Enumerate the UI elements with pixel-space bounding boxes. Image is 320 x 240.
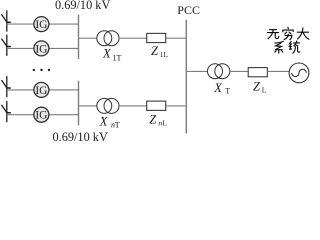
wire PCC bus to transformer XT	[186, 70, 207, 72]
wire Z1L to PCC bus	[166, 37, 187, 39]
svg-text:IG: IG	[35, 85, 47, 97]
wire bus 1 to transformer X1T	[79, 37, 98, 39]
svg-text:IG: IG	[35, 110, 47, 122]
wire bus 2 to transformer XnT	[79, 105, 98, 107]
wire IG1 to bus 1	[49, 23, 79, 25]
induction generator IG2	[34, 41, 49, 56]
transformer X1T	[97, 31, 119, 46]
wire WT2 to IG2	[7, 47, 34, 49]
svg-text:Z: Z	[253, 80, 261, 94]
PCC busbar	[185, 20, 187, 134]
svg-text:L: L	[162, 119, 167, 128]
svg-text:IG: IG	[35, 19, 47, 31]
wire XT to ZL	[230, 70, 248, 72]
label Z1L	[151, 44, 169, 59]
char 无	[268, 30, 279, 39]
wire X1T to Z1L	[119, 37, 147, 39]
svg-text:X: X	[99, 114, 109, 128]
wire ZL to infinite source	[267, 70, 289, 72]
svg-text:X: X	[102, 46, 112, 60]
wire XnT to ZnL	[119, 105, 147, 107]
char 穷	[283, 27, 293, 39]
wire WT3 to IG3	[7, 89, 34, 91]
bus 2 (0.69/10 kV busbar, bottom)	[78, 81, 80, 126]
impedance ZnL	[147, 101, 166, 110]
wind turbine WT3	[2, 77, 11, 97]
svg-text:1L: 1L	[160, 50, 169, 59]
wire IG3 to bus 2	[49, 89, 79, 91]
char 大	[297, 28, 309, 39]
label X1T	[102, 46, 122, 62]
wind turbine WT1	[2, 11, 11, 31]
svg-text:IG: IG	[35, 43, 47, 55]
svg-text:T: T	[225, 87, 230, 96]
svg-text:Z: Z	[151, 44, 159, 58]
wire IG2 to bus 1	[49, 47, 79, 49]
wire ZnL to PCC bus	[166, 105, 187, 107]
svg-text:0.69/10 kV: 0.69/10 kV	[55, 0, 110, 12]
ellipsis dots between wind farm groups	[33, 69, 50, 71]
label XnT	[99, 114, 120, 129]
svg-text:0.69/10 kV: 0.69/10 kV	[53, 130, 108, 144]
induction generator IG3	[34, 82, 49, 97]
impedance Z1L	[147, 33, 166, 42]
wire IG4 to bus 2	[49, 114, 79, 116]
wire WT4 to IG4	[7, 114, 34, 116]
infinite bus AC source	[289, 63, 309, 83]
wind turbine WT2	[2, 35, 11, 55]
bus 1 (0.69/10 kV busbar, top)	[78, 15, 80, 60]
transformer XT	[208, 64, 230, 79]
svg-text:T: T	[115, 120, 120, 129]
svg-text:X: X	[213, 81, 223, 95]
induction generator IG4	[34, 107, 49, 122]
svg-text:1T: 1T	[113, 53, 122, 62]
char 系	[275, 41, 283, 53]
induction generator IG1	[34, 17, 49, 32]
svg-text:PCC: PCC	[177, 3, 200, 17]
impedance ZL	[248, 68, 267, 77]
wind turbine WT4	[2, 102, 11, 122]
svg-text:Z: Z	[149, 113, 157, 127]
label 无穷大系统 (infinite system), drawn as strokes	[268, 27, 309, 53]
svg-text:L: L	[262, 86, 267, 95]
char 统	[289, 41, 299, 53]
label ZnL	[149, 113, 167, 128]
label ZL	[253, 80, 267, 95]
transformer XnT	[97, 98, 119, 113]
label XT	[213, 81, 230, 96]
wire WT1 to IG1	[7, 23, 34, 25]
